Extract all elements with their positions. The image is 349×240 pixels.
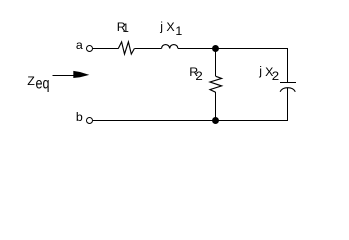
junction node top [212, 45, 219, 52]
resistor R2 [210, 76, 222, 92]
wire L1 to right corner [178, 48, 288, 50]
wire capacitor to bottom rail [287, 88, 289, 121]
wire R2 to bottom rail [215, 92, 217, 121]
wire node to R2 [215, 49, 217, 77]
wire top right corner down to capacitor [287, 48, 289, 82]
svg-text:Z: Z [27, 74, 35, 88]
arrow Zeq head [73, 71, 89, 78]
capacitor j X2 bottom curved plate [280, 88, 295, 92]
capacitor j X2 top plate [280, 82, 296, 84]
svg-text:X: X [166, 20, 174, 34]
bottom rail wire b to capacitor [93, 120, 288, 122]
node a terminal circle [87, 46, 93, 52]
arrow Zeq shaft [53, 75, 76, 77]
inductor j X1 [162, 45, 178, 49]
wire R1 to L1 [134, 48, 161, 50]
svg-text:1: 1 [123, 23, 129, 35]
svg-text:1: 1 [175, 24, 182, 38]
svg-text:2: 2 [272, 69, 280, 83]
resistor R1 [118, 42, 134, 54]
svg-text:eq: eq [36, 76, 50, 93]
wire a to R1 [93, 48, 118, 50]
svg-text:j: j [258, 64, 262, 78]
svg-text:a: a [76, 38, 83, 52]
svg-text:2: 2 [195, 69, 203, 83]
svg-text:b: b [76, 110, 83, 124]
svg-text:j: j [159, 19, 163, 33]
node b terminal circle [87, 118, 93, 124]
junction node bottom [212, 117, 219, 124]
